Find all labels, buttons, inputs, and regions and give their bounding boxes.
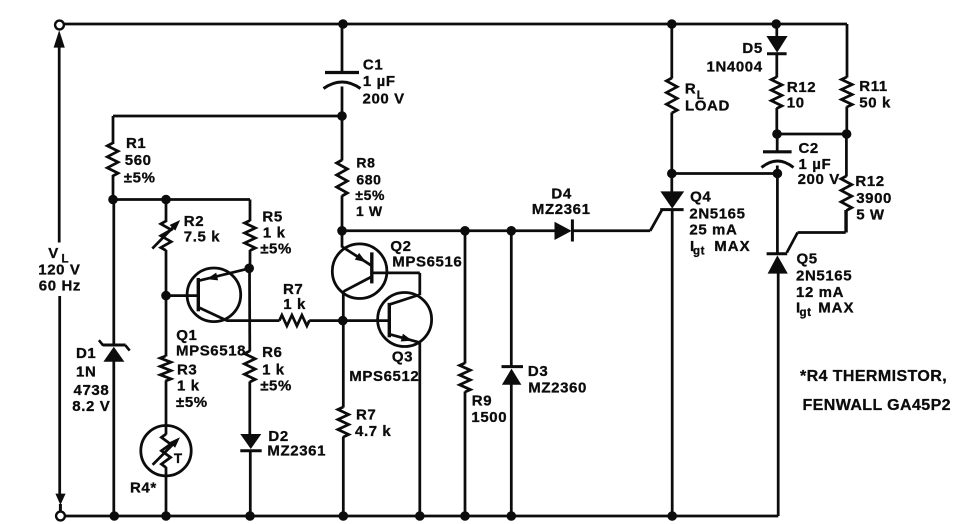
svg-text:R7: R7 <box>356 407 376 424</box>
svg-text:R11: R11 <box>859 78 888 95</box>
svg-text:200 V: 200 V <box>798 171 840 188</box>
svg-text:R: R <box>685 80 696 97</box>
svg-text:1 k: 1 k <box>283 296 306 313</box>
svg-text:MPS6512: MPS6512 <box>349 368 419 385</box>
svg-text:5 W: 5 W <box>856 206 885 223</box>
svg-text:R9: R9 <box>472 392 492 409</box>
svg-text:4738: 4738 <box>74 382 110 399</box>
svg-text:D5: D5 <box>742 40 762 57</box>
svg-text:MPS6516: MPS6516 <box>392 254 462 271</box>
svg-text:Q3: Q3 <box>392 348 413 365</box>
svg-text:8.2 V: 8.2 V <box>72 398 110 415</box>
svg-text:LOAD: LOAD <box>685 98 730 115</box>
svg-text:±5%: ±5% <box>355 187 385 203</box>
svg-text:±5%: ±5% <box>260 378 292 395</box>
svg-text:C1: C1 <box>363 56 383 73</box>
svg-text:200 V: 200 V <box>363 91 405 108</box>
svg-text:MAX: MAX <box>818 299 854 316</box>
svg-text:60 Hz: 60 Hz <box>39 278 81 295</box>
svg-text:4.7 k: 4.7 k <box>355 423 391 440</box>
svg-text:MPS6518: MPS6518 <box>176 342 246 359</box>
svg-text:R3: R3 <box>177 362 197 379</box>
svg-text:R5: R5 <box>262 208 282 225</box>
svg-text:1500: 1500 <box>471 409 507 426</box>
svg-text:R8: R8 <box>356 154 375 170</box>
svg-text:1 k: 1 k <box>262 361 285 378</box>
svg-text:2N5165: 2N5165 <box>796 267 852 284</box>
svg-text:120 V: 120 V <box>38 262 80 279</box>
svg-text:C2: C2 <box>799 140 819 157</box>
svg-text:FENWALL GA45P2: FENWALL GA45P2 <box>803 397 951 414</box>
svg-text:T: T <box>174 451 183 466</box>
svg-text:gt: gt <box>693 246 705 258</box>
svg-text:680: 680 <box>356 171 381 187</box>
svg-text:1 W: 1 W <box>356 203 383 219</box>
svg-text:R12: R12 <box>787 79 816 96</box>
svg-text:1 k: 1 k <box>177 378 200 395</box>
svg-text:1N: 1N <box>76 364 96 381</box>
svg-text:560: 560 <box>125 152 152 169</box>
svg-text:R4*: R4* <box>130 480 157 497</box>
svg-text:25 mA: 25 mA <box>689 222 737 239</box>
svg-text:R2: R2 <box>184 213 204 230</box>
svg-text:2N5165: 2N5165 <box>689 206 745 223</box>
svg-text:R6: R6 <box>262 344 282 361</box>
svg-text:MAX: MAX <box>714 238 750 255</box>
svg-text:1 µF: 1 µF <box>363 73 396 90</box>
svg-text:V: V <box>48 245 59 262</box>
svg-text:gt: gt <box>800 307 812 319</box>
svg-text:1 k: 1 k <box>263 225 286 242</box>
svg-text:MZ2361: MZ2361 <box>267 442 326 459</box>
svg-text:MZ2360: MZ2360 <box>528 379 587 396</box>
svg-text:7.5 k: 7.5 k <box>184 229 220 246</box>
svg-text:±5%: ±5% <box>176 394 208 411</box>
svg-text:MZ2361: MZ2361 <box>532 201 591 218</box>
svg-text:±5%: ±5% <box>260 240 292 257</box>
svg-text:R12: R12 <box>855 173 884 190</box>
svg-text:D3: D3 <box>528 363 548 380</box>
svg-text:±5%: ±5% <box>124 169 156 186</box>
svg-text:D4: D4 <box>551 185 571 202</box>
svg-text:Q4: Q4 <box>690 188 711 205</box>
svg-text:*R4 THERMISTOR,: *R4 THERMISTOR, <box>800 368 947 385</box>
svg-text:1N4004: 1N4004 <box>707 58 763 75</box>
svg-text:R1: R1 <box>126 135 146 152</box>
svg-text:Q5: Q5 <box>797 251 818 268</box>
svg-text:D1: D1 <box>76 345 96 362</box>
svg-text:3900: 3900 <box>856 190 892 207</box>
svg-text:50 k: 50 k <box>859 94 891 111</box>
svg-text:12 mA: 12 mA <box>796 284 844 301</box>
svg-text:10: 10 <box>787 95 805 112</box>
